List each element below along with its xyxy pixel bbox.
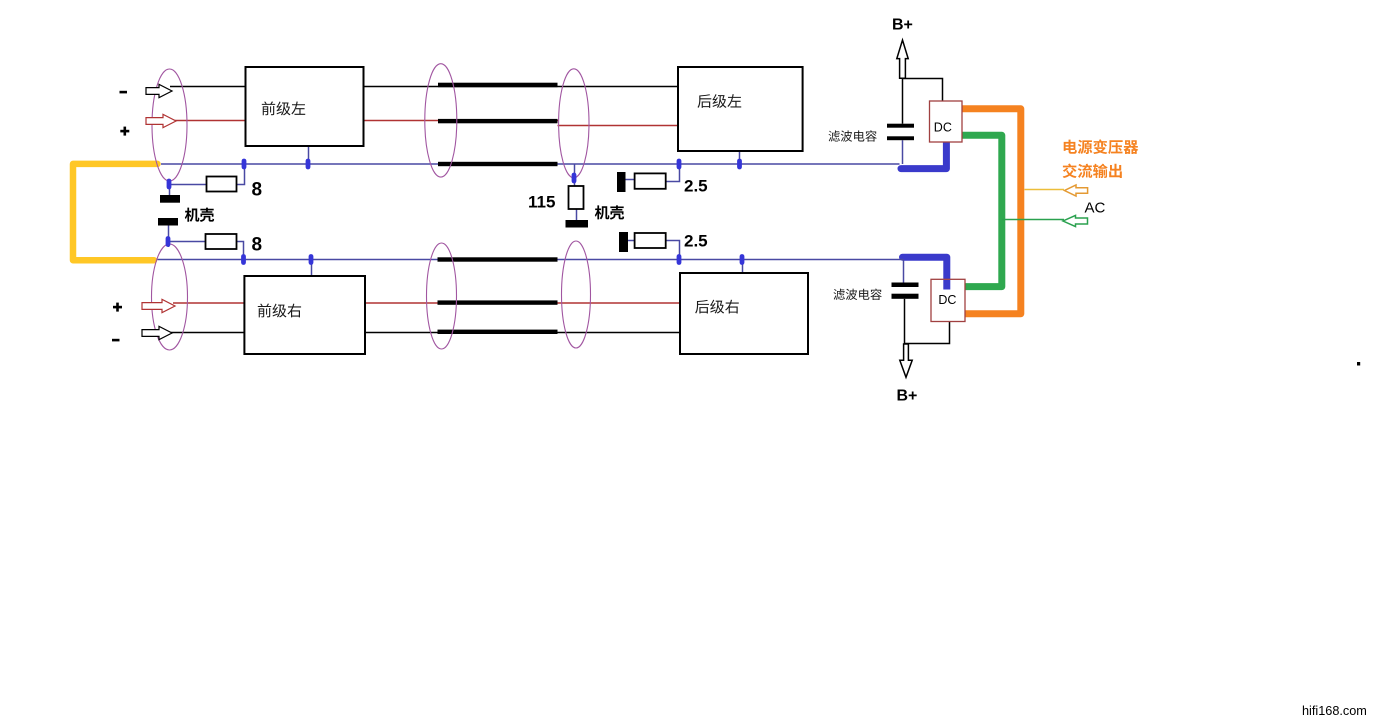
- arrow: − input (top): [146, 84, 172, 97]
- label: 滤波电容 (top): [829, 130, 877, 141]
- thick orange DC supply wire: [960, 109, 1021, 314]
- block: DC module U1: [930, 101, 963, 142]
- label: 后级左: [697, 94, 741, 108]
- wire: R2 to bottom ground bus: [237, 242, 244, 260]
- arrow: + input (top): [146, 114, 176, 127]
- wire: R1 to top ground bus: [237, 164, 245, 185]
- ellipse: bottom cable left end: [427, 243, 457, 349]
- thick blue ground wire (top DC): [901, 140, 946, 169]
- chassis stub bar (R5): [619, 232, 628, 252]
- wire: chassis stub to R4: [626, 179, 635, 181]
- node: 后级左 ground: [737, 159, 742, 170]
- svg-text:8: 8: [252, 235, 263, 256]
- ellipse: top input connector: [152, 69, 187, 181]
- wire: signal hot to 后级左: [558, 125, 679, 127]
- svg-text:hifi168.com: hifi168.com: [1302, 704, 1367, 718]
- wire: lead to R2: [168, 241, 206, 243]
- label: 电源变压器: [1064, 139, 1139, 154]
- capacitor C2 plate 1: [892, 283, 919, 288]
- svg-text:B+: B+: [892, 16, 913, 33]
- wire: chassis stub to R5: [628, 240, 635, 242]
- chassis plate (top-left upper): [160, 195, 180, 203]
- wire: 后级左 ground lead: [739, 151, 741, 164]
- thick green DC supply wire: [960, 135, 1002, 286]
- label: + vertical (top): [124, 127, 127, 136]
- ellipse: top cable left end: [425, 64, 457, 177]
- node: R4 on top bus: [677, 159, 682, 170]
- block: DC module U2: [931, 279, 965, 321]
- label: 后级右: [695, 300, 739, 314]
- wire: bottom ground bus: [158, 259, 904, 261]
- thick blue ground wire (bottom DC): [903, 257, 947, 281]
- svg-text:DC: DC: [934, 121, 952, 135]
- wire: top ground bus: [161, 163, 900, 165]
- label: − (bottom): [112, 339, 120, 342]
- block: 前级左 (preamp L): [246, 67, 364, 146]
- wire: 前级左 to 后级左 (signal shield): [364, 86, 679, 88]
- svg-text:2.5: 2.5: [684, 232, 708, 251]
- wire: − input to 前级右: [170, 332, 244, 334]
- wire: 前级右 ground lead: [311, 260, 313, 277]
- wire: B+ to top DC module: [903, 79, 943, 102]
- arrow: − input (bottom): [142, 326, 172, 339]
- node: input shield (bottom): [166, 236, 171, 247]
- wire: 前级左 signal hot out: [364, 120, 559, 122]
- wire: 前级右 to 后级右 (signal shield): [365, 332, 680, 334]
- wire: R4 to top ground bus: [666, 164, 680, 182]
- label: 前级右: [258, 304, 301, 318]
- label: 机壳 (middle): [595, 205, 624, 219]
- label: − (top): [120, 91, 128, 94]
- resistor R4 (2.5): [635, 173, 666, 188]
- wire: AC green lead: [1002, 219, 1064, 221]
- svg-text:115: 115: [528, 193, 555, 212]
- arrow: AC yellow: [1065, 185, 1088, 196]
- block: 后级左 (power amp L): [678, 67, 803, 151]
- cable bar: top ground: [438, 162, 558, 166]
- resistor R1 (8): [207, 177, 237, 192]
- chassis plate (below R3 115): [566, 220, 589, 228]
- cable bar: top shield (black): [438, 83, 558, 88]
- svg-text:2.5: 2.5: [684, 177, 708, 196]
- label: + horizontal (bottom): [113, 306, 122, 309]
- wire: − input to 前级左: [170, 86, 246, 88]
- wire: + input to 前级左: [174, 120, 246, 122]
- stray mark: [1357, 362, 1360, 366]
- node: R5 on bottom bus: [677, 254, 682, 265]
- capacitor C2 plate 2: [892, 294, 919, 299]
- wire: 前级左 ground lead: [308, 146, 310, 164]
- wire: R3 to chassis: [576, 209, 578, 220]
- wire: input shield to R1/chassis: [169, 184, 171, 195]
- chassis plate (top-left lower): [158, 218, 178, 226]
- wire: C1 to top ground bus: [902, 140, 904, 164]
- arrow: + input (bottom): [142, 299, 175, 312]
- wire: chassis to bottom input shield: [168, 226, 170, 248]
- ellipse: top cable right end: [559, 69, 589, 178]
- arrow: B+ down: [900, 344, 912, 377]
- arrow: AC green: [1063, 215, 1088, 226]
- resistor R3 (115): [569, 186, 584, 209]
- label: 交流输出: [1063, 164, 1122, 179]
- node: input shield (top): [167, 179, 172, 190]
- node: cable shield (115): [572, 173, 577, 184]
- label: 滤波电容 (bottom): [834, 289, 882, 300]
- wire: blue stub into DC module U2: [943, 280, 950, 290]
- svg-text:DC: DC: [938, 293, 956, 307]
- wire: bottom bus to C2: [903, 260, 905, 283]
- arrow: B+ up: [897, 40, 908, 78]
- cable bar: bottom hot: [438, 300, 558, 304]
- wire: R5 to bottom ground bus: [666, 241, 680, 260]
- node: R2 on bottom bus: [241, 254, 246, 265]
- wire: cable shield to R3: [574, 164, 576, 186]
- svg-text:B+: B+: [897, 388, 918, 405]
- node: R1 on top bus: [242, 159, 247, 170]
- wire: lead to R1: [169, 184, 207, 186]
- node: 后级右 ground: [740, 254, 745, 265]
- ellipse: bottom input connector: [152, 244, 188, 350]
- block: 后级右 (power amp R): [680, 273, 808, 354]
- chassis stub bar (R4): [617, 172, 626, 192]
- svg-text:AC: AC: [1085, 200, 1106, 217]
- svg-text:8: 8: [252, 180, 263, 201]
- label: + horizontal (top): [120, 130, 129, 133]
- wire: bottom DC module to B+: [905, 322, 950, 344]
- node: 前级右 ground: [309, 254, 314, 265]
- wire: C2 to B+ arrow (bottom): [904, 299, 906, 344]
- node: 前级左 ground: [306, 159, 311, 170]
- resistor R2 (8): [206, 234, 237, 249]
- wire: + input to 前级右: [173, 302, 244, 304]
- cable bar: top hot (red run): [438, 119, 558, 123]
- label: 前级左: [262, 101, 305, 115]
- cable bar: bottom ground: [438, 257, 558, 261]
- capacitor C1 plate 2: [887, 136, 914, 140]
- label: + vertical (bottom): [116, 303, 119, 312]
- wire: 前级右 signal hot to 后级右: [365, 302, 680, 304]
- wire: B+ arrow to C1: [902, 79, 904, 124]
- block: 前级右 (preamp R): [244, 276, 365, 354]
- label: 机壳 (left): [185, 208, 214, 222]
- resistor R5 (2.5): [635, 233, 666, 248]
- wire: 后级右 ground lead: [742, 260, 744, 274]
- thick yellow ground strap wire: [73, 164, 158, 260]
- wire: AC yellow lead: [1025, 189, 1065, 191]
- capacitor C1 plate 1: [887, 124, 914, 128]
- ellipse: bottom cable right end: [562, 241, 591, 348]
- cable bar: bottom shield: [438, 330, 558, 334]
